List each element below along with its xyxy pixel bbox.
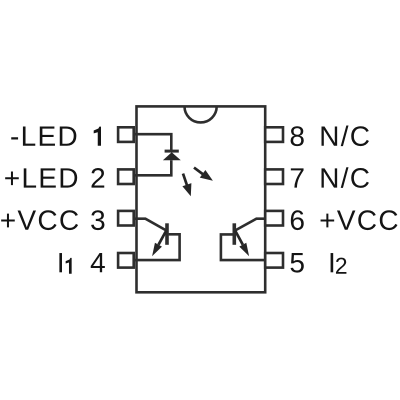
LED D1 anode triangle	[163, 152, 181, 160]
pin number 5	[291, 253, 304, 273]
pin 7 box	[265, 169, 283, 184]
pin 3 stub	[134, 217, 137, 220]
pin 1 box	[118, 127, 134, 142]
light emission arrow 2 shaft	[194, 168, 203, 175]
pin 8 box	[265, 127, 283, 142]
wire pin6 to Q2 collector	[235, 219, 266, 231]
Q1 emitter arrow shaft	[159, 231, 167, 245]
pin 7 label N/C	[322, 167, 369, 188]
pin 5 label I2	[331, 253, 334, 272]
wire LED anode to pin2	[137, 160, 172, 175]
pin 8 label N/C	[322, 126, 369, 147]
pin 6 box	[265, 211, 283, 226]
optocoupler IC body U1 (8-pin DIP outline)	[137, 106, 266, 292]
pin number 6	[291, 210, 304, 230]
wire pin3 to Q1 collector	[137, 219, 167, 231]
pin number 7	[291, 168, 304, 187]
light emission arrow 1 head	[182, 183, 191, 196]
pin-1 index notch	[185, 106, 217, 122]
pin 4 label I1	[59, 253, 62, 272]
light emission arrow 1 shaft	[183, 174, 187, 186]
pin 6 label +VCC	[321, 210, 398, 230]
pin 5 box	[265, 253, 283, 268]
wire Q1 base loop to pin4	[137, 234, 180, 260]
pin 2 stub	[134, 174, 137, 177]
transistor Q2 base bar	[233, 223, 237, 245]
pin 4 stub	[134, 259, 137, 262]
light emission arrow 2 head	[200, 170, 213, 181]
pin 2 box	[118, 169, 134, 184]
Q1 emitter arrow head	[152, 243, 162, 257]
pin 3 label +VCC	[1, 210, 78, 230]
pin number 8	[291, 126, 304, 146]
pin number 1	[94, 127, 101, 146]
pin 1 stub	[134, 133, 137, 136]
subscript 2 of I2	[336, 258, 346, 274]
pin number 4	[91, 253, 105, 272]
pin 1 label -LED	[11, 127, 76, 146]
pin number 3	[91, 210, 104, 230]
Q2 emitter arrow shaft	[235, 231, 243, 245]
pin 2 label +LED	[5, 168, 77, 187]
pin number 2	[92, 168, 105, 188]
wire Q2 base loop to pin5	[221, 234, 265, 260]
pin 3 box	[118, 211, 134, 226]
LED D1 cathode bar	[165, 150, 179, 153]
subscript 1 of I1	[66, 258, 72, 274]
Q2 emitter arrow head	[239, 243, 249, 257]
transistor Q1 base bar	[165, 223, 169, 245]
wire pin1 to LED cathode	[137, 134, 172, 150]
pin 4 box	[118, 253, 134, 268]
